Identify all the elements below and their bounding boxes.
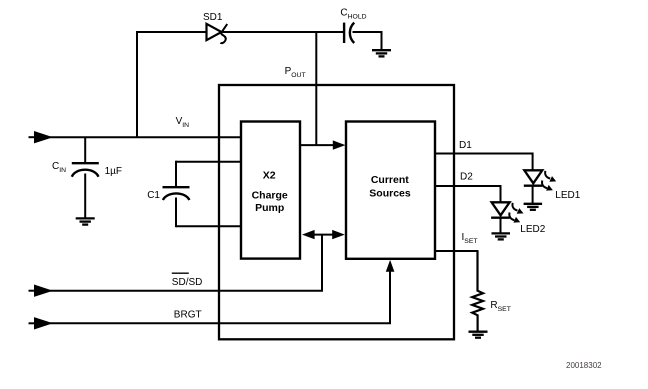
- ground (LED2): [492, 233, 511, 239]
- wire SD/SD: [50, 235, 322, 291]
- ground (CIN): [76, 218, 95, 224]
- resistor RSET: [472, 251, 483, 332]
- svg-text:1µF: 1µF: [105, 166, 122, 177]
- ground (RSET): [469, 332, 488, 338]
- svg-text:D1: D1: [459, 140, 472, 151]
- label SD/SD with overline: [172, 273, 203, 288]
- svg-text:LED1: LED1: [555, 190, 580, 201]
- svg-text:LED2: LED2: [520, 224, 545, 235]
- svg-text:Charge: Charge: [252, 190, 288, 202]
- svg-text:BRGT: BRGT: [174, 310, 202, 321]
- input arrow VIN: [29, 131, 54, 143]
- svg-text:Current: Current: [371, 174, 409, 186]
- svg-text:20018302: 20018302: [566, 361, 602, 370]
- svg-text:C1: C1: [147, 190, 160, 201]
- svg-text:Sources: Sources: [369, 188, 411, 200]
- ground (LED1): [524, 204, 543, 210]
- node POUT wire (vertical drop and arrow into Current Sources): [300, 32, 345, 150]
- wire D1: [435, 154, 533, 171]
- svg-text:X2: X2: [263, 170, 276, 182]
- LED LED2: [491, 202, 523, 233]
- wire BRGT with arrow into current sources: [50, 260, 394, 323]
- wire ISET: [435, 251, 478, 291]
- input arrow SD/SD: [29, 285, 54, 297]
- capacitor CHOLD: [344, 23, 354, 43]
- block X2 charge pump: [241, 122, 300, 259]
- wire VIN: [50, 136, 241, 138]
- svg-text:SD/SD: SD/SD: [172, 277, 203, 288]
- input arrow BRGT: [29, 317, 54, 329]
- block current sources: [346, 122, 435, 259]
- ground (CHOLD): [372, 50, 391, 56]
- wire D2: [435, 186, 501, 202]
- wire top rail left segment with corner down to VIN: [137, 32, 207, 137]
- diode SD1 (schottky): [207, 24, 228, 43]
- IC outer box: [219, 85, 454, 339]
- svg-text:Pump: Pump: [255, 202, 284, 214]
- wire top rail right segment: [223, 31, 344, 33]
- capacitor CIN with ground: [72, 137, 99, 218]
- wire from CHOLD to ground: [353, 32, 382, 50]
- capacitor C1 with connection wires: [163, 161, 242, 228]
- LED LED1: [524, 170, 556, 203]
- bidirectional arrow between X2 and current sources: [302, 230, 345, 239]
- svg-text:D2: D2: [460, 172, 473, 183]
- svg-text:SD1: SD1: [203, 12, 223, 23]
